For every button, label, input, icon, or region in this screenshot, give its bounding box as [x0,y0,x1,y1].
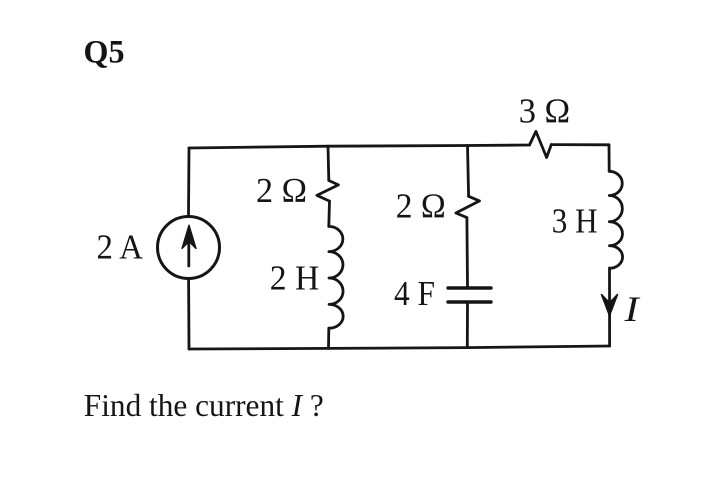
capacitor C1 4F bottom plate [448,300,491,303]
svg-text:2 Ω: 2 Ω [256,171,307,210]
wire branch2 lower [327,328,330,348]
wire branch3 lower [466,304,469,348]
wire top (node A: top rail) [189,145,530,148]
inductor L1 2H coil [329,226,343,328]
inductor L2 3H coil [609,171,622,268]
svg-text:2 A: 2 A [97,228,144,267]
svg-text:Find the current I ?: Find the current I ? [84,387,324,423]
current arrow I (down) [602,295,618,316]
wire branch2 mid [327,201,331,226]
svg-text:I: I [624,289,642,329]
capacitor C1 4F top plate [448,286,491,289]
svg-text:2 H: 2 H [270,258,320,297]
wire right lower [608,268,611,346]
wire branch3 mid [465,218,468,287]
current source arrow (up) [187,234,190,266]
svg-text:2 Ω: 2 Ω [396,186,446,225]
resistor R1 2 ohm (branch 2 zigzag) [317,181,339,202]
wire bottom (node B: bottom rail) [189,346,610,349]
svg-text:3 H: 3 H [552,202,598,241]
resistor R2 2 ohm (branch 3 zigzag) [456,196,480,217]
wire branch3 upper [468,146,469,197]
current source CS1 2A circle [158,217,220,279]
svg-text:3 Ω: 3 Ω [519,91,571,130]
wire branch2 upper [327,146,331,180]
wire top-right [551,143,609,146]
svg-text:Q5: Q5 [84,34,125,70]
wire left upper [187,148,190,215]
resistor R3 3 ohm (top, zigzag) [530,131,552,157]
wire left lower [187,280,190,349]
svg-text:4 F: 4 F [394,274,435,313]
wire right upper [608,145,611,172]
